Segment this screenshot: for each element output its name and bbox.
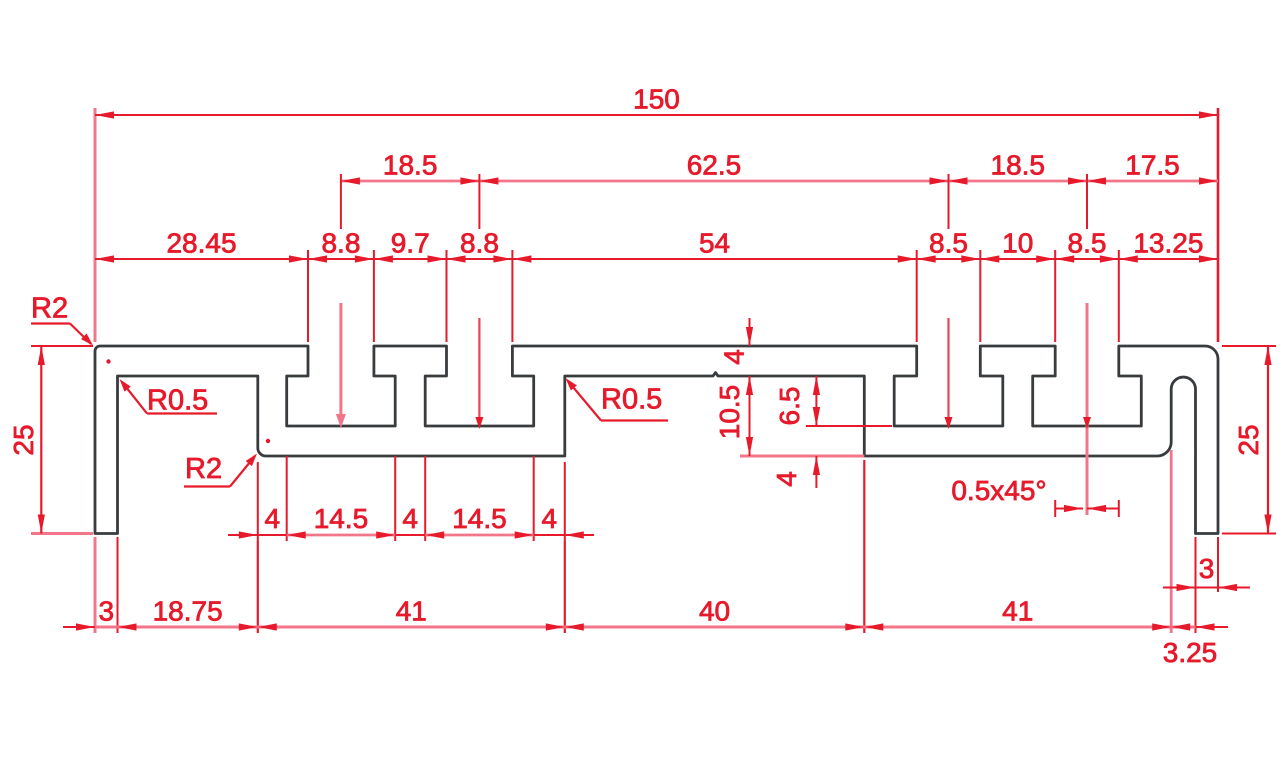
chamfer dim ticks bbox=[1054, 500, 1056, 517]
cavity wall extension lines bbox=[257, 462, 259, 541]
dim left 25 line bbox=[40, 346, 42, 534]
svg-text:3: 3 bbox=[1199, 553, 1215, 584]
svg-text:14.5: 14.5 bbox=[452, 503, 507, 534]
svg-text:8.5: 8.5 bbox=[1068, 228, 1107, 259]
svg-text:150: 150 bbox=[633, 84, 680, 115]
extension y=456 middle bbox=[740, 455, 864, 458]
bottom dim line bbox=[95, 626, 1196, 629]
centerline slot1 upper bbox=[340, 174, 342, 229]
svg-text:3.25: 3.25 bbox=[1163, 637, 1218, 668]
bottom extension x=95 bbox=[94, 537, 97, 633]
bottom extension x=117.5 bbox=[117, 537, 119, 633]
dimension 150 line bbox=[95, 114, 1218, 116]
bottom extension x=1171.2 bbox=[1170, 450, 1173, 633]
dim row3 line bbox=[95, 258, 1218, 260]
svg-text:8.8: 8.8 bbox=[321, 228, 360, 259]
extrusion profile outline bbox=[95, 346, 1218, 534]
dimension 150 arrows bbox=[95, 111, 114, 118]
svg-text:R2: R2 bbox=[31, 293, 68, 325]
bottom dim tail right bbox=[1196, 626, 1229, 628]
chamfer dim lines bbox=[1055, 508, 1083, 510]
extension line right edge x=1218 bbox=[1217, 108, 1220, 342]
svg-text:18.75: 18.75 bbox=[153, 596, 223, 627]
svg-text:54: 54 bbox=[699, 228, 730, 259]
dim 4 bottom wall line bbox=[815, 456, 817, 488]
radius center mark top-left bbox=[106, 359, 110, 363]
extension line left edge x=95 bbox=[94, 108, 97, 342]
svg-text:9.7: 9.7 bbox=[391, 228, 430, 259]
centerline slot1 lower with arrow bbox=[339, 303, 342, 420]
svg-text:28.45: 28.45 bbox=[166, 228, 236, 259]
centerline slot2 lower with arrow bbox=[478, 318, 480, 417]
centerline slot4 upper bbox=[1086, 174, 1088, 229]
left 25 extension bottom bbox=[31, 532, 93, 535]
bottom dim tail left bbox=[63, 626, 95, 628]
dim 62.5 arrows bbox=[479, 177, 498, 184]
svg-text:R0.5: R0.5 bbox=[601, 384, 662, 416]
dim row 4-14.5 arrows bbox=[239, 531, 258, 538]
svg-text:18.5: 18.5 bbox=[383, 150, 438, 181]
bottom extension x=257.8 bbox=[257, 541, 259, 633]
extension y=426 middle bbox=[806, 425, 892, 427]
svg-text:10.5: 10.5 bbox=[714, 385, 745, 440]
svg-text:4: 4 bbox=[264, 503, 280, 534]
dim right 3 line+arrows bbox=[1163, 587, 1196, 589]
svg-text:4: 4 bbox=[719, 349, 750, 365]
dim right 25 arrows bbox=[1264, 346, 1271, 365]
svg-text:4: 4 bbox=[541, 503, 557, 534]
dim 6.5 arrows bbox=[813, 376, 820, 395]
svg-text:R2: R2 bbox=[185, 453, 222, 485]
right 25 extension top bbox=[1222, 345, 1276, 347]
svg-text:3: 3 bbox=[98, 596, 114, 627]
svg-text:41: 41 bbox=[396, 596, 427, 627]
row3 arrowheads bbox=[95, 255, 114, 262]
bottom extension x=864.3 bbox=[863, 460, 865, 633]
right 25 extension bottom bbox=[1222, 533, 1276, 535]
dim left 25 arrows bbox=[38, 346, 45, 365]
dim 10.5 line bbox=[749, 376, 751, 456]
svg-text:4: 4 bbox=[771, 471, 802, 487]
left 25 extension top bbox=[31, 345, 93, 347]
dim row2 line bbox=[341, 180, 1218, 183]
svg-text:10: 10 bbox=[1002, 228, 1033, 259]
bottom extension x=564.8 bbox=[564, 541, 566, 633]
svg-text:40: 40 bbox=[699, 596, 730, 627]
centerline slot2 upper bbox=[478, 174, 480, 229]
svg-text:0.5x45°: 0.5x45° bbox=[951, 475, 1046, 506]
right-3 extension x=1218 bbox=[1217, 537, 1219, 592]
dim row 4-14.5 line bbox=[228, 534, 287, 536]
svg-text:R0.5: R0.5 bbox=[147, 385, 208, 417]
svg-text:8.5: 8.5 bbox=[929, 228, 968, 259]
dim 6.5 line bbox=[815, 376, 817, 426]
svg-text:25: 25 bbox=[1233, 424, 1264, 455]
row3 extension lines at slot opening edges bbox=[307, 250, 309, 342]
dim 17.5 arrows bbox=[1087, 177, 1106, 184]
bottom extension x=1195.5 bbox=[1195, 537, 1197, 633]
svg-text:25: 25 bbox=[8, 424, 39, 455]
svg-text:4: 4 bbox=[402, 503, 418, 534]
dim 18.5 left arrows bbox=[341, 177, 360, 184]
bottom dim arrows bbox=[118, 623, 137, 630]
radius center mark bottom plate bbox=[266, 439, 270, 443]
centerline slot3 lower with arrow bbox=[947, 318, 949, 417]
svg-text:62.5: 62.5 bbox=[687, 150, 742, 181]
dim 18.5 right arrows bbox=[949, 177, 968, 184]
svg-text:17.5: 17.5 bbox=[1125, 150, 1180, 181]
dim 10.5 arrows bbox=[746, 376, 753, 395]
svg-text:6.5: 6.5 bbox=[774, 387, 805, 426]
svg-text:8.8: 8.8 bbox=[460, 228, 499, 259]
svg-text:14.5: 14.5 bbox=[314, 503, 369, 534]
svg-text:18.5: 18.5 bbox=[991, 150, 1046, 181]
dim 4 top wall line bbox=[749, 318, 751, 346]
svg-text:13.25: 13.25 bbox=[1133, 228, 1203, 259]
svg-text:41: 41 bbox=[1002, 596, 1033, 627]
centerline slot3 upper bbox=[948, 174, 950, 229]
dim right 25 line bbox=[1267, 346, 1269, 534]
centerline slot4 lower with arrow bbox=[1086, 303, 1089, 515]
